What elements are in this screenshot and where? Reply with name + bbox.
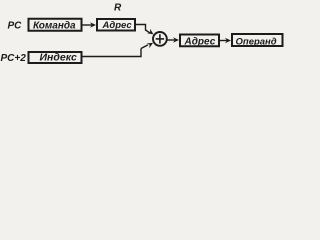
box Адрес2 (effective address) [180, 35, 219, 48]
box Адрес (address field, register R) [97, 19, 135, 31]
box Индекс (index value) [29, 51, 82, 63]
svg-text:РС+2: РС+2 [1, 53, 27, 64]
wire Индекс to adder (elbow up) [83, 43, 154, 57]
svg-text:R: R [114, 3, 122, 14]
svg-text:Адрес: Адрес [102, 20, 133, 31]
wire arrow Адрес2 to Операнд [220, 38, 231, 43]
adder circle with plus [153, 32, 167, 46]
svg-text:Операнд: Операнд [236, 36, 277, 47]
box Операнд (operand) [232, 34, 283, 47]
wire Адрес to adder (elbow down) [136, 25, 154, 35]
wire arrow Команда to Адрес [83, 22, 97, 27]
box Команда (instruction) [29, 19, 82, 32]
wire arrow adder to Адрес2 [167, 37, 179, 42]
svg-text:РС: РС [8, 20, 23, 31]
svg-text:Адрес: Адрес [184, 36, 216, 47]
svg-text:Индекс: Индекс [40, 51, 78, 63]
svg-text:Команда: Команда [33, 20, 76, 31]
